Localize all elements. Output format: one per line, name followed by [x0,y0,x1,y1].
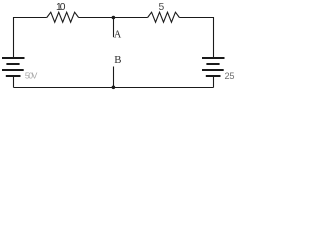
value label 25 (V2) [224,71,234,81]
battery V2 25 plate short 1 [206,63,219,65]
battery V2 25 plate short 2 [206,75,221,77]
svg-text:0: 0 [60,2,66,13]
resistor R1 10 [47,12,79,22]
wire top-right horizontal [179,17,213,19]
wire top-left horizontal [14,17,47,19]
wire bottom horizontal [14,87,214,89]
battery V1 50V plate short 1 [6,63,19,65]
wire stub node A [113,18,115,38]
value label 50V (V1) [25,71,38,81]
battery V1 50V plate short 2 [6,75,21,77]
wire right vertical lower [213,77,215,88]
battery V1 50V plate long 1 [2,57,25,59]
junction dot node B bottom [112,86,116,90]
svg-text:V: V [32,71,38,81]
wire top-middle horizontal [79,17,148,19]
battery V1 50V plate long 2 [2,69,24,71]
value label 10 (R1) [56,2,66,13]
junction dot node A top [112,16,116,20]
svg-text:5: 5 [229,71,234,81]
svg-text:B: B [114,54,121,66]
svg-text:5: 5 [159,2,165,13]
wire left vertical lower [13,77,15,88]
resistor R2 5 [148,12,180,22]
battery V2 25 plate long 2 [202,69,224,71]
svg-text:A: A [114,30,122,41]
wire left vertical upper [13,17,15,57]
wire right vertical upper [213,17,215,57]
battery V2 25 plate long 1 [202,57,225,59]
wire stub node B [113,67,115,88]
